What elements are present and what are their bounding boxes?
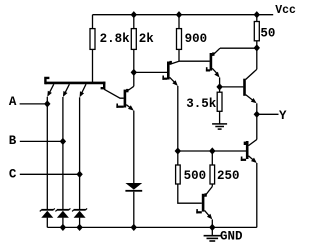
node ground tap	[209, 224, 215, 231]
node input B	[60, 138, 66, 145]
wire Q2 emitter down to diode D4	[133, 111, 135, 183]
wire Q5 emitter to Y node	[256, 103, 258, 114]
node squaring rail / 250	[209, 147, 215, 154]
svg-text:C: C	[9, 168, 17, 182]
svg-text:A: A	[9, 95, 17, 109]
wire Y node down to Q7 collector	[256, 114, 258, 139]
svg-text:50: 50	[260, 26, 275, 40]
wire 2k node to Q3 base	[134, 71, 167, 73]
node D2 ground rail	[60, 224, 66, 231]
resistor R5 3.5k	[219, 87, 221, 92]
wire Q5 collector up to 50 node	[256, 48, 258, 69]
ground for 3.5k	[212, 123, 227, 125]
node output Y	[254, 111, 260, 118]
svg-text:GND: GND	[220, 230, 243, 244]
node 50 bottom / Q4 Q5 collectors	[254, 44, 260, 51]
svg-text:Y: Y	[279, 109, 287, 123]
wire Q7 emitter down to ground rail	[256, 163, 258, 227]
svg-text:Vcc: Vcc	[275, 4, 296, 17]
wire 250 bottom to Q6 collector	[211, 184, 213, 187]
wire input A	[20, 103, 48, 105]
transistor Q7 output lower	[241, 140, 257, 164]
transistor Q6 squaring	[196, 187, 212, 220]
resistor R6 500	[177, 151, 179, 165]
svg-text:2.8k: 2.8k	[100, 32, 131, 46]
diode D1 input clamp	[40, 208, 55, 227]
wire output Y	[257, 113, 279, 115]
node top rail / R2 2k junction	[131, 11, 137, 18]
wire Q6 emitter to ground rail	[211, 219, 213, 227]
node D3 ground rail	[76, 224, 82, 231]
transistor Q1 multi-emitter input	[45, 78, 124, 98]
resistor R2 2k	[133, 15, 135, 29]
node squaring rail / 500	[175, 147, 181, 154]
wire input B	[20, 140, 63, 142]
svg-text:3.5k: 3.5k	[186, 97, 217, 111]
node top rail / R4 50 junction	[254, 11, 260, 18]
transistor Q2 phase splitter	[116, 86, 133, 110]
wire Vcc top rail	[93, 14, 274, 16]
svg-text:B: B	[9, 134, 17, 148]
node 3.5k top / Q5 base	[216, 83, 222, 90]
wire Q4 emitter to 3.5k node	[219, 78, 221, 87]
diode D3 input clamp	[72, 208, 87, 227]
wire Q2 collector to 2k node	[133, 72, 135, 86]
wire Q4 collector to 50 node	[220, 47, 257, 49]
ground main GND	[204, 227, 221, 241]
node top rail / R3 900 junction	[176, 11, 182, 18]
transistor Q3	[162, 61, 179, 86]
resistor R1 2.8k	[92, 15, 94, 29]
resistor R4 50	[256, 15, 258, 22]
wire input A vertical	[46, 97, 48, 209]
wire squaring rail	[178, 150, 246, 152]
wire 500 bottom to Q6 base	[178, 184, 202, 203]
wire input C vertical	[79, 97, 81, 209]
svg-text:900: 900	[185, 32, 208, 46]
svg-text:2k: 2k	[139, 32, 155, 46]
wire ground rail	[47, 226, 256, 228]
svg-text:500: 500	[184, 169, 207, 183]
transistor Q4 darlington driver	[206, 48, 220, 77]
wire input B vertical	[62, 97, 64, 209]
node input A	[44, 100, 50, 107]
resistor R3 900	[178, 15, 180, 29]
node 2k bottom / Q2 collector / Q3 base	[131, 69, 137, 76]
wire Q3 emitter down to squaring rail	[177, 86, 179, 151]
wire input C	[20, 173, 80, 175]
transistor Q5 output pull-up	[245, 69, 257, 103]
node input C	[76, 171, 82, 178]
diode D4	[125, 183, 142, 227]
wire Q5 base	[220, 86, 244, 88]
node diode D4 / ground rail	[131, 224, 137, 231]
resistor R7 250	[211, 151, 213, 165]
svg-text:250: 250	[217, 169, 240, 183]
diode D2 input clamp	[55, 208, 70, 227]
wire 900 node to Q4 base	[179, 60, 210, 62]
